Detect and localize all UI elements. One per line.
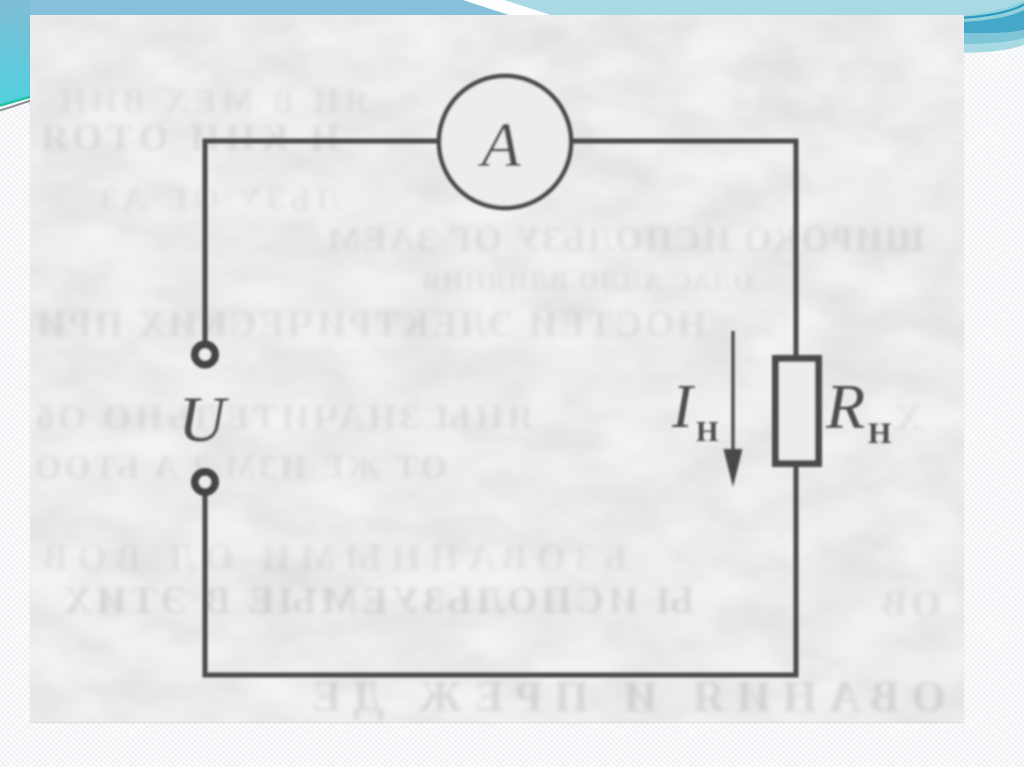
current arrow I_н head	[724, 449, 743, 487]
top-left teal line	[0, 97, 31, 106]
svg-text:R: R	[825, 371, 865, 442]
top band (left, medium blue)	[28, 0, 512, 16]
svg-text:Н: Н	[696, 416, 719, 448]
faint bleed-through text rows (mirrored)	[55, 85, 369, 119]
svg-text:Н: Н	[868, 417, 891, 450]
svg-text:U: U	[179, 384, 230, 456]
ammeter U1 circle	[439, 76, 571, 208]
top-right swoosh: thin dark line	[950, 5, 1024, 19]
wire: right vertical lower + bottom side + left vertical lower	[205, 465, 796, 675]
top-left gray line	[0, 101, 31, 111]
terminal (upper, U)	[195, 345, 215, 365]
wire: left vertical upper + top side + right vertical upper	[205, 141, 796, 357]
current arrow I_н shaft	[731, 331, 734, 455]
top band white swoosh	[463, 0, 554, 16]
top-right swoosh: light band	[950, 30, 1024, 44]
top-left cyan corner	[0, 0, 30, 105]
svg-text:A: A	[477, 109, 521, 180]
svg-text:I: I	[671, 373, 696, 441]
top-right swoosh: lightest band	[950, 38, 1024, 53]
terminal (lower, U)	[195, 472, 215, 492]
top-right swoosh: pale underlay band	[950, 0, 1024, 23]
decorative slide header band and corner swooshes	[0, 0, 1024, 130]
top-right swoosh: medium band	[950, 10, 1024, 33]
top band (right, light blue)	[28, 0, 1024, 16]
resistor R_н body	[776, 359, 819, 464]
